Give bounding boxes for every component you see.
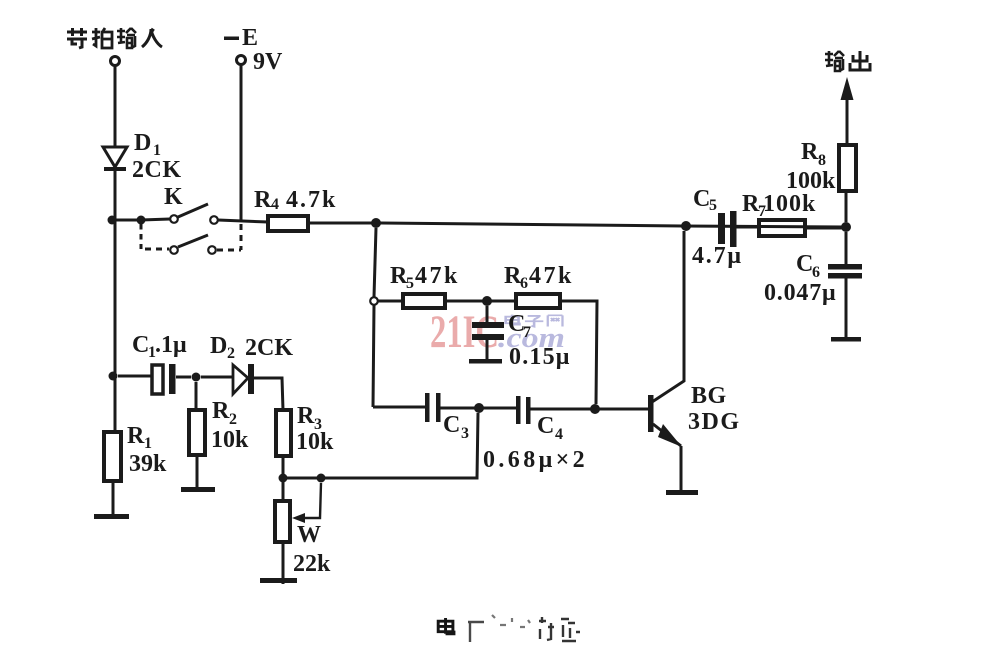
svg-text:BG: BG [691,383,727,409]
svg-text:R: R [297,403,315,429]
svg-text:0.047μ: 0.047μ [764,280,836,306]
svg-text:5: 5 [406,275,414,292]
svg-text:47k: 47k [415,263,460,289]
svg-text:22k: 22k [293,551,331,577]
svg-text:C: C [537,413,554,439]
svg-text:3DG: 3DG [688,409,741,435]
svg-text:3: 3 [461,425,469,442]
svg-text:10k: 10k [211,427,249,453]
svg-text:47k: 47k [529,263,574,289]
svg-text:C: C [693,186,710,212]
svg-text:4.7μ: 4.7μ [692,243,743,269]
svg-text:.1μ: .1μ [155,332,187,358]
svg-text:D: D [134,130,151,156]
svg-text:C: C [796,251,813,277]
svg-text:K: K [164,184,183,210]
svg-text:0.68μ×2: 0.68μ×2 [483,447,588,473]
svg-text:E: E [242,25,258,51]
svg-text:100k: 100k [786,168,836,194]
svg-text:0.15μ: 0.15μ [509,344,571,370]
svg-text:10k: 10k [296,429,334,455]
svg-text:100k: 100k [763,191,816,217]
svg-text:7: 7 [523,324,531,341]
svg-text:R: R [212,398,230,424]
svg-text:9V: 9V [253,49,283,75]
svg-text:6: 6 [520,275,528,292]
svg-text:D: D [210,333,227,359]
svg-text:4.7k: 4.7k [286,187,337,213]
svg-text:4: 4 [271,196,279,213]
svg-text:8: 8 [818,152,826,169]
svg-text:6: 6 [812,264,820,281]
svg-text:2CK: 2CK [245,335,293,361]
svg-text:C: C [443,412,460,438]
svg-text:R: R [127,423,145,449]
svg-text:2CK: 2CK [132,157,182,183]
svg-text:W: W [297,522,321,548]
svg-text:5: 5 [709,197,717,214]
svg-text:1: 1 [144,435,152,452]
svg-text:4: 4 [555,426,563,443]
svg-text:2: 2 [227,345,235,362]
svg-text:2: 2 [229,411,237,428]
svg-text:R: R [254,187,272,213]
svg-text:21IC: 21IC [430,306,499,358]
svg-text:R: R [801,139,819,165]
svg-text:39k: 39k [129,451,167,477]
svg-text:C: C [132,332,149,358]
